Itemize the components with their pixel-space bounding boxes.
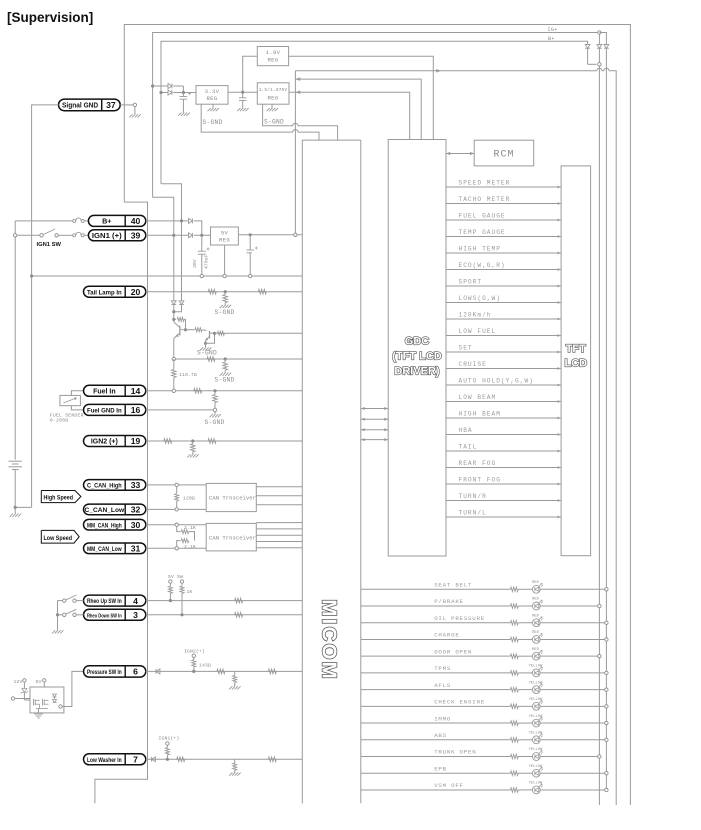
connector pin 39 IGN1 (+) <box>88 230 145 241</box>
wire 5V REG ground pin <box>224 245 226 276</box>
node diode output junction circle <box>598 63 601 66</box>
transistor Q2 <box>209 331 211 339</box>
signal LOWS(G,W) <box>446 302 561 304</box>
wire MM_CAN_High row <box>146 524 206 526</box>
resistor R-fuel divider vertical <box>214 391 216 395</box>
svg-text:39: 39 <box>131 231 141 241</box>
connector pin 14 Fuel In <box>84 385 146 396</box>
mosfets inside pressure box <box>33 699 35 706</box>
connector pin 4 Rheo Up SW In <box>84 595 146 606</box>
svg-text:EPB: EPB <box>434 765 447 772</box>
svg-text:IGN2 (+): IGN2 (+) <box>91 439 118 446</box>
svg-text:CHECK ENGINE: CHECK ENGINE <box>434 699 485 706</box>
connector pin 37 Signal GND <box>59 99 121 111</box>
ground 1.5V REG S-GND <box>267 108 270 111</box>
ic GDC TFT LCD DRIVER box <box>388 140 446 557</box>
transistor Q1 PNP <box>179 326 181 336</box>
ground pressure box IEC <box>38 709 40 713</box>
svg-text:19: 19 <box>131 436 141 446</box>
svg-text:ABS: ABS <box>434 732 447 739</box>
ground rheo switches <box>52 630 55 633</box>
ground fuel S-GND <box>210 414 213 417</box>
junction dot Q1 base node <box>184 328 187 331</box>
svg-text:RED: RED <box>532 614 540 618</box>
wire Signal GND right terminal <box>120 104 133 106</box>
lamp row VSM OFF <box>361 789 511 791</box>
junction circle 5V rail tap <box>294 233 297 236</box>
svg-text:Fuel In: Fuel In <box>93 388 116 395</box>
signal TAIL <box>446 450 561 452</box>
ic RCM box <box>474 140 534 166</box>
wire C_CAN_Low row <box>146 508 206 510</box>
svg-text:(TFT LCD: (TFT LCD <box>392 351 442 363</box>
junction dot transistor emitter <box>172 318 175 321</box>
diode D8 pressure row <box>156 669 160 674</box>
svg-text:TPMS: TPMS <box>434 665 451 672</box>
svg-text:110.7Ω: 110.7Ω <box>179 372 197 378</box>
svg-text:LOW BEAM: LOW BEAM <box>459 394 497 401</box>
svg-text:P/BRAKE: P/BRAKE <box>434 598 464 605</box>
wire MICOM top bus C <box>302 139 361 141</box>
svg-text:40: 40 <box>131 216 141 226</box>
svg-text:YELLOW: YELLOW <box>529 681 543 685</box>
svg-text:Tail Lamp In: Tail Lamp In <box>87 289 122 296</box>
svg-text:IG+: IG+ <box>548 27 558 33</box>
wires CAN1 outputs to MICOM <box>256 486 302 488</box>
lamp row EPB <box>361 772 511 774</box>
svg-text:S-GND: S-GND <box>197 350 217 357</box>
svg-text:3.3V: 3.3V <box>205 88 220 95</box>
label Low Speed flag <box>41 530 79 543</box>
junction dot tail pulldown <box>224 290 227 293</box>
regulator U3 1.5/1.875V REG box <box>257 83 289 104</box>
capacitor C4 5V output <box>249 235 251 250</box>
junction dot diode merge <box>182 91 185 94</box>
diode D9 low washer <box>152 757 156 762</box>
regulator U2 1.8V REG box <box>257 47 288 66</box>
resistor R-washer pullup <box>166 742 169 745</box>
svg-text:FUEL GAUGE: FUEL GAUGE <box>459 213 506 220</box>
svg-text:Pressure SW In: Pressure SW In <box>87 669 122 676</box>
capacitor C1 electrolytic at regulator input <box>182 93 184 97</box>
diode D7 on B+ rail drop <box>179 301 184 305</box>
junction circle fuel bias top <box>172 357 175 360</box>
svg-text:Fuel GND In: Fuel GND In <box>87 408 122 415</box>
junction dot ground rail left <box>30 274 33 277</box>
connector pin 30 MM_CAN_High <box>84 519 146 530</box>
ic CAN Transceiver 2 box <box>206 523 256 551</box>
connector pin 32 C_CAN_Low <box>84 504 146 515</box>
wire Signal GND left to ground rail <box>32 105 59 508</box>
svg-text:TFT: TFT <box>566 343 586 355</box>
junction circle fuel gnd <box>213 408 216 411</box>
capacitor C2 at 3.3V output <box>242 92 244 98</box>
resistor R-bias <box>174 318 176 320</box>
svg-text:120Km/h: 120Km/h <box>459 312 492 319</box>
wire B+ rail top <box>161 41 588 184</box>
wire MM_CAN_Low row <box>146 547 206 549</box>
svg-text:2.1K: 2.1K <box>184 544 196 550</box>
wire IG+ rail jog to IGN1 feed <box>153 197 174 301</box>
svg-text:120Ω: 120Ω <box>183 496 195 502</box>
svg-text:TEMP GAUGE: TEMP GAUGE <box>459 229 506 236</box>
svg-text:16: 16 <box>131 405 141 415</box>
resistor R-press pulldown <box>234 671 236 675</box>
svg-text:REAR FOG: REAR FOG <box>459 460 497 467</box>
resistor R-press a <box>217 669 225 674</box>
connector pin 7 Low Washer In <box>84 754 146 765</box>
svg-text:SEAT BELT: SEAT BELT <box>434 582 472 589</box>
svg-text:Low Speed: Low Speed <box>44 535 73 542</box>
signal LOW BEAM <box>446 401 561 403</box>
svg-text:1.5/1.875V: 1.5/1.875V <box>259 87 288 93</box>
wires CAN2 outputs to MICOM <box>256 522 302 524</box>
svg-text:MM_CAN_Low: MM_CAN_Low <box>87 546 122 553</box>
ic CAN Transceiver 1 box <box>206 483 256 511</box>
wire 1.5V REG bottom pin to MICOM bus A <box>263 104 293 126</box>
wire IGN1 to 5V REG <box>146 234 189 236</box>
svg-text:37: 37 <box>106 100 116 110</box>
wire fuel sender bottom to Fuel GND In <box>71 406 83 410</box>
svg-text:IGN1 SW: IGN1 SW <box>37 242 62 248</box>
wire rheo up switch common <box>58 600 63 602</box>
ground 3.3V REG S-GND <box>208 108 211 111</box>
svg-text:5V: 5V <box>221 229 229 236</box>
junction dot IGN1-IG+ rail <box>172 234 175 237</box>
svg-text:S-GND: S-GND <box>205 419 225 426</box>
signal REAR FOG <box>446 467 561 469</box>
svg-text:470uF: 470uF <box>204 254 210 269</box>
svg-text:YELLOW: YELLOW <box>529 715 543 719</box>
wire 3.3V input line1 with diode from IG+ rail <box>153 85 168 87</box>
wire riser to 1.8V REG input <box>243 56 258 92</box>
junction circle cap C4 gnd <box>249 274 252 277</box>
resistor R-ign2 pulldown <box>192 441 194 444</box>
signal FRONT FOG <box>446 483 561 485</box>
ground pressure pulldown <box>229 686 232 689</box>
junction circle ccan high <box>175 483 178 486</box>
resistor R-press b <box>268 669 276 674</box>
svg-text:LCD: LCD <box>564 358 587 370</box>
resistor R-rheodown row <box>235 613 243 618</box>
svg-text:20: 20 <box>131 287 141 297</box>
resistor R-ign2 a <box>164 439 172 444</box>
ground battery <box>10 514 13 517</box>
svg-text:SPORT: SPORT <box>459 279 483 286</box>
svg-text:RED: RED <box>532 598 540 602</box>
svg-text:CHARGE: CHARGE <box>434 632 459 639</box>
resistor R-2.1K upper <box>177 526 181 531</box>
wire signal gnd rail to battery rail <box>15 506 31 508</box>
signal ECO(W,G,R) <box>446 269 561 271</box>
wire rheo switches to ground <box>57 601 59 631</box>
regulator U4 5V REG box <box>211 227 239 245</box>
resistor R-fuel vertical 110.7 <box>173 359 175 369</box>
resistor R-fb pulldown <box>224 359 226 362</box>
svg-text:6: 6 <box>133 667 138 677</box>
svg-text:AFLS: AFLS <box>434 682 451 689</box>
svg-text:LOWS(G,W): LOWS(G,W) <box>459 295 501 302</box>
svg-text:S-GND: S-GND <box>215 309 235 316</box>
svg-text:HIGH TEMP: HIGH TEMP <box>459 246 501 253</box>
wire 1.5V output to GDC <box>289 92 410 139</box>
svg-text:YELLOW: YELLOW <box>529 665 543 669</box>
fuse F1 B+ <box>73 219 76 222</box>
connector pin 3 Rheo Down SW In <box>84 609 146 620</box>
wire GDC-RCM arrows <box>446 153 474 155</box>
ground washer pulldown <box>229 773 232 776</box>
switch rheo up <box>63 599 66 602</box>
arrow into 5V rail upper <box>295 77 300 81</box>
signal 120Km/h <box>446 318 561 320</box>
svg-text:DOOR OPEN: DOOR OPEN <box>434 648 472 655</box>
svg-text:OIL PRESSURE: OIL PRESSURE <box>434 615 485 622</box>
diode D5 IGN1 feed <box>189 233 193 238</box>
diode D3 top right <box>604 45 609 49</box>
junction dot diode merge transistor <box>172 310 175 313</box>
resistor R-120 CAN termination <box>176 487 178 494</box>
wire MICOM left bus vertical <box>301 140 303 803</box>
svg-text:C_CAN_High: C_CAN_High <box>87 483 122 490</box>
svg-text:12V: 12V <box>14 679 23 685</box>
connector pin 31 MM_CAN_Low <box>84 543 146 554</box>
lamp row P/BRAKE <box>361 605 511 607</box>
lamp row TRUNK OPEN <box>361 756 511 758</box>
junction dot ign2 pulldown <box>191 439 194 442</box>
connector pin 33 C_CAN_High <box>84 480 146 491</box>
wire Q2 collector row <box>215 332 303 334</box>
svg-text:GDC: GDC <box>405 336 430 348</box>
svg-text:31: 31 <box>131 544 141 554</box>
arrow on power line <box>436 69 441 73</box>
svg-text:S-GND: S-GND <box>264 118 284 125</box>
pressure sw input terminal <box>11 697 14 700</box>
wire 5V rail vertical <box>294 71 296 233</box>
svg-text:IGN1(+): IGN1(+) <box>159 736 180 742</box>
ground Signal GND <box>129 114 132 117</box>
resistor R-base Q2 <box>186 329 195 331</box>
resistor R-tail2 <box>258 289 266 294</box>
signal AUTO HOLD(Y,G,W) <box>446 384 561 386</box>
signal HIGH TEMP <box>446 252 561 254</box>
svg-text:Rheo Up SW In: Rheo Up SW In <box>87 598 122 605</box>
lamp row SEAT BELT <box>361 588 511 590</box>
junction circle mmcan low <box>175 547 178 550</box>
svg-text:B+: B+ <box>548 36 555 42</box>
signal LOW FUEL <box>446 335 561 337</box>
diode D6 on IG+ rail drop <box>171 301 176 305</box>
connector pin 19 IGN2 (+) <box>84 436 146 447</box>
wire outer loop top and right <box>124 25 630 806</box>
svg-text:RCM: RCM <box>493 150 514 161</box>
signal HBA <box>446 434 561 436</box>
svg-text:[Supervision]: [Supervision] <box>7 10 93 25</box>
svg-text:3: 3 <box>133 610 138 620</box>
resistor R-washer b <box>268 757 276 762</box>
diode D4 B+ feed <box>189 218 193 223</box>
junction dot rheo up pullup <box>169 599 172 602</box>
signal SPEED METER <box>446 186 561 188</box>
svg-text:REG: REG <box>207 95 218 102</box>
battery B1 <box>9 460 22 462</box>
fuel sender box <box>60 395 81 405</box>
lamp row TPMS <box>361 672 511 674</box>
signal SET <box>446 351 561 353</box>
resistor R-q2row <box>217 331 224 335</box>
svg-text:C_CAN_Low: C_CAN_Low <box>85 507 125 514</box>
switch IGN1 SW <box>40 234 43 237</box>
resistor R-ign2 b <box>208 439 216 444</box>
junction dot 3.3V output branch <box>241 91 244 94</box>
svg-text:YELLOW: YELLOW <box>529 731 543 735</box>
resistor R-rheo pullup1 <box>169 580 172 583</box>
svg-text:MICOM: MICOM <box>318 599 341 681</box>
connector pin 6 Pressure SW In <box>84 666 146 677</box>
svg-text:S-GND: S-GND <box>215 377 235 384</box>
wire IGN1 from rail to switch <box>14 234 17 237</box>
svg-text:REG: REG <box>219 237 230 244</box>
resistor R-2.1K lower <box>177 541 181 547</box>
lamp row CHECK ENGINE <box>361 705 511 707</box>
svg-text:HIGH BEAM: HIGH BEAM <box>459 411 501 418</box>
svg-text:7: 7 <box>133 755 138 765</box>
wire fuel sender top to Fuel In <box>71 391 83 396</box>
resistor R-tail1 <box>208 289 216 294</box>
svg-text:YELLOW: YELLOW <box>529 748 543 752</box>
svg-text:FRONT FOG: FRONT FOG <box>459 477 501 484</box>
wire C_CAN_High row <box>146 484 206 486</box>
svg-text:IGN1 (+): IGN1 (+) <box>92 233 122 240</box>
signal TACHO METER <box>446 203 561 205</box>
resistor R-washer a <box>177 757 185 762</box>
junction dot fuel divider <box>213 389 216 392</box>
switch rheo down <box>63 613 66 616</box>
svg-text:5V: 5V <box>36 679 42 685</box>
signal TURN/R <box>446 500 561 502</box>
ground tail S-GND <box>220 305 223 308</box>
svg-text:4: 4 <box>133 596 138 606</box>
resistor R-tail pulldown <box>224 292 226 295</box>
diode D1 regulator feed <box>168 84 172 89</box>
svg-text:1K: 1K <box>187 589 193 595</box>
wire 3.3V REG bottom pin to MICOM bus B <box>201 104 293 132</box>
junction circle mmcan high <box>175 523 178 526</box>
wire B+ to 5V REG diode <box>146 220 189 222</box>
svg-text:IMMO: IMMO <box>434 715 451 722</box>
svg-text:IGN2(+): IGN2(+) <box>184 648 205 654</box>
wire 12V into box <box>24 699 30 701</box>
svg-text:CAN Trnsceiver: CAN Trnsceiver <box>209 495 256 502</box>
svg-text:AUTO HOLD(Y,G,W): AUTO HOLD(Y,G,W) <box>459 378 534 385</box>
svg-text:SET: SET <box>459 345 473 352</box>
pressure interface box <box>30 687 64 713</box>
svg-text:REG: REG <box>268 57 279 64</box>
wire low washer row <box>146 758 302 760</box>
ground ign2 <box>187 454 190 457</box>
label High Speed flag <box>41 491 81 503</box>
signal CRUISE <box>446 368 561 370</box>
junction dot fb pulldown <box>224 357 227 360</box>
svg-text:RED: RED <box>532 648 540 652</box>
svg-text:MM_CAN_High: MM_CAN_High <box>87 522 122 529</box>
svg-text:0-200Ω: 0-200Ω <box>50 417 68 423</box>
lamp row AFLS <box>361 689 511 691</box>
diode D-B+ top right <box>585 45 590 49</box>
svg-text:HBA: HBA <box>459 427 473 434</box>
svg-text:RED: RED <box>532 581 540 585</box>
wire B+ feed from rail <box>15 220 72 222</box>
wire battery rail <box>14 221 16 460</box>
junction dot battery-ground <box>14 506 17 509</box>
arrow into 5V rail lower <box>295 90 300 94</box>
svg-text:YELLOW: YELLOW <box>529 765 543 769</box>
signal TEMP GAUGE <box>446 236 561 238</box>
lamp row OIL PRESSURE <box>361 622 511 624</box>
resistor R-rheoup row <box>235 598 243 603</box>
svg-text:B+: B+ <box>102 217 111 226</box>
lamp row CHARGE <box>361 638 511 640</box>
svg-text:TAIL: TAIL <box>459 444 478 451</box>
resistor R-rheo pullup2 <box>180 580 183 583</box>
lamp row IMMO <box>361 722 511 724</box>
resistor R-washer pulldown <box>234 759 236 763</box>
wire 3.3V output to 1.5V regulator <box>228 91 257 93</box>
resistor R-fb1 <box>207 357 215 362</box>
wire B+ rail jog down <box>161 184 182 301</box>
svg-text:DRIVER): DRIVER) <box>394 366 440 378</box>
signal FUEL GAUGE <box>446 219 561 221</box>
junction dot B+/IGN1 merge <box>200 234 203 237</box>
svg-text:REG: REG <box>268 95 279 102</box>
capacitor C3 38V 470uF <box>201 235 203 251</box>
wire fuel gnd row <box>146 409 215 411</box>
wire pressure row <box>146 670 302 672</box>
ground C2 <box>237 108 240 111</box>
svg-text:30: 30 <box>131 520 141 530</box>
svg-text:TURN/L: TURN/L <box>459 510 487 517</box>
wire pressure box output to pin <box>59 705 62 708</box>
svg-text:VSM OFF: VSM OFF <box>434 782 464 789</box>
junction circle 5V REG gnd <box>223 274 226 277</box>
signal TURN/L <box>446 516 561 518</box>
svg-text:YELLOW: YELLOW <box>529 782 543 786</box>
ground Q2 S-GND <box>200 347 203 350</box>
junction dot rheo down pullup <box>180 613 183 616</box>
svg-text:14: 14 <box>131 386 141 396</box>
junction dot 5V output cap <box>249 233 252 236</box>
wire rheo down row <box>76 614 83 616</box>
svg-text:2.1K: 2.1K <box>184 525 196 531</box>
connector pin 16 Fuel GND In <box>84 404 146 415</box>
wire MICOM right bus vertical <box>360 140 362 803</box>
svg-text:Low Washer In: Low Washer In <box>87 757 122 764</box>
svg-text:1.8V: 1.8V <box>266 49 281 56</box>
connector pin 20 Tail Lamp In <box>84 286 146 297</box>
diode D2 regulator feed <box>168 90 172 95</box>
wire rheo down switch common <box>58 614 63 616</box>
junction dot B+ line2 <box>159 91 162 94</box>
junction dot B+ rail drop <box>180 219 183 222</box>
svg-text:38V: 38V <box>192 259 198 268</box>
wire IGN2 row <box>146 440 302 442</box>
diode D-IG+ node <box>598 33 600 45</box>
resistor R-pressure pullup <box>192 654 195 657</box>
svg-text:TACHO METER: TACHO METER <box>459 196 511 203</box>
zener diode pressure 12V <box>23 682 25 688</box>
ic TFT LCD box <box>561 166 591 556</box>
wire 3.3V REG ground pin <box>212 104 214 108</box>
fuse F2 IGN1 <box>73 234 76 237</box>
